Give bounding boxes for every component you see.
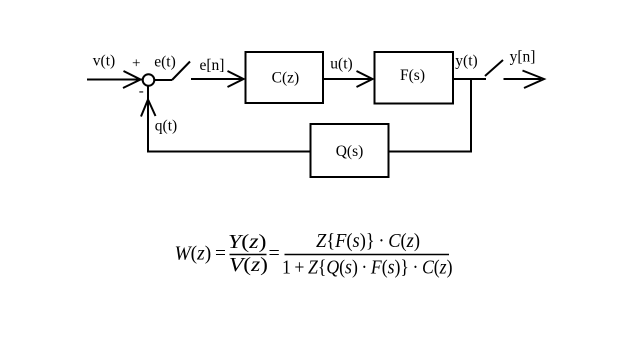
svg-text:Z{F(s)} · C(z): Z{F(s)} · C(z) xyxy=(316,230,420,252)
svg-text:1 + Z{Q(s) · F(s)} · C(z): 1 + Z{Q(s) · F(s)} · C(z) xyxy=(282,257,453,279)
svg-text:+: + xyxy=(132,56,140,72)
svg-text:e[n]: e[n] xyxy=(200,57,225,74)
svg-text:v(t): v(t) xyxy=(93,53,115,70)
svg-text:y[n]: y[n] xyxy=(510,49,536,66)
svg-text:q(t): q(t) xyxy=(155,118,177,135)
svg-text:C(z): C(z) xyxy=(272,70,300,87)
svg-text:u(t): u(t) xyxy=(330,56,352,73)
svg-text:y(t): y(t) xyxy=(455,53,477,70)
svg-text:Y(z): Y(z) xyxy=(228,231,267,253)
svg-text:W(z) =: W(z) = xyxy=(175,243,227,265)
svg-text:-: - xyxy=(139,84,144,100)
svg-text:Q(s): Q(s) xyxy=(336,143,364,160)
svg-text:V(z): V(z) xyxy=(229,254,268,276)
svg-text:F(s): F(s) xyxy=(400,67,425,84)
svg-text:e(t): e(t) xyxy=(154,54,176,71)
svg-text:=: = xyxy=(269,243,280,265)
